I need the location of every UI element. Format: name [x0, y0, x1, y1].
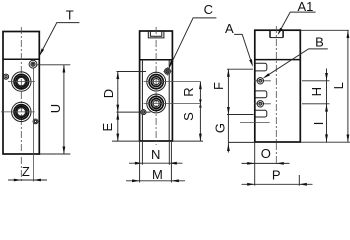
screw C: [165, 68, 171, 74]
svg-text:F: F: [211, 82, 226, 90]
svg-text:N: N: [151, 147, 160, 162]
dimension P line: [242, 183, 313, 185]
dimension O line: [242, 162, 290, 164]
extension line from screw S1: [38, 64, 71, 66]
screw S2 view1: [33, 119, 38, 124]
svg-text:M: M: [152, 167, 163, 182]
port 2 view1: [12, 102, 31, 121]
screw B2 centerline: [254, 103, 271, 105]
dimension U line: [63, 65, 65, 154]
svg-text:Z: Z: [22, 164, 30, 179]
L bottom arrow: [347, 135, 350, 143]
port 1 view2: [147, 72, 166, 91]
svg-text:P: P: [272, 168, 281, 183]
division line view1: [3, 58, 39, 60]
leader T arrowhead: [39, 49, 44, 56]
I top arrow: [325, 104, 328, 112]
dimension H line: [326, 69, 328, 104]
svg-text:C: C: [204, 2, 213, 17]
svg-text:E: E: [100, 123, 115, 132]
R top arrow: [199, 82, 202, 90]
D top arrow: [116, 72, 119, 80]
svg-text:H: H: [309, 87, 324, 96]
O right arrow: [276, 162, 284, 165]
centerline view3: [275, 26, 277, 165]
port boss 1 view3: [255, 63, 267, 71]
H top outside arrow: [325, 73, 328, 81]
dimension D line: [117, 72, 119, 113]
left screw centerline / D-E shared extension: [117, 111, 151, 113]
bottom extension line view2 right: [172, 140, 203, 142]
top notch outer view2: [148, 31, 164, 38]
dimension N extension right: [168, 142, 170, 165]
dimension L line: [347, 30, 349, 142]
dimension R line: [199, 82, 201, 104]
N right arrow: [169, 162, 177, 165]
division line view3: [255, 59, 300, 61]
P right arrow: [299, 183, 307, 186]
body outline view1: [3, 32, 39, 155]
L top arrow: [347, 31, 350, 39]
screw B1 centerline: [254, 80, 271, 82]
G bottom arrow: [227, 144, 230, 152]
U top arrow: [63, 65, 66, 73]
leader B arrowhead: [263, 73, 270, 78]
leader A1: [279, 12, 316, 33]
svg-text:O: O: [261, 146, 271, 161]
U bottom arrow: [63, 147, 66, 155]
dimension N extension left: [141, 142, 143, 165]
dimension M line: [126, 180, 185, 182]
body outline view2: [140, 31, 173, 141]
dimension F top extension: [227, 68, 253, 70]
R-S meeting arrows: [199, 100, 202, 108]
leader C arrowhead: [169, 60, 174, 67]
dimension O left extension: [254, 143, 256, 186]
body outline view3: [255, 30, 300, 142]
feature line view3: [240, 122, 270, 124]
M left arrow: [132, 179, 140, 182]
dimension I line: [326, 104, 328, 142]
port 1 centerline: [8, 81, 35, 83]
screw C extension line: [117, 71, 147, 73]
top notch inner view2: [150, 31, 161, 36]
top extension for L: [300, 29, 349, 31]
leader B: [265, 49, 328, 77]
F bottom arrow: [227, 107, 230, 115]
dimension P right extension: [298, 175, 300, 186]
svg-text:A: A: [225, 21, 234, 36]
screw B1 extension right: [302, 80, 330, 82]
screw column line view1: [32, 60, 34, 182]
svg-text:D: D: [101, 89, 116, 98]
dimension N line: [129, 162, 183, 164]
F top arrow: [227, 69, 230, 77]
port boss 3 view3: [255, 110, 267, 117]
Z right arrow: [33, 179, 41, 182]
svg-text:G: G: [213, 123, 228, 133]
G bottom extension: [228, 141, 254, 143]
screw S1 view1: [29, 60, 37, 68]
dimension F-G shared extension: [227, 114, 254, 116]
D bottom arrow: [116, 105, 119, 113]
port 2 centerline: [1, 111, 35, 113]
vertical centerline view1: [20, 27, 22, 182]
screw B2 view3: [257, 101, 263, 107]
svg-text:T: T: [66, 8, 74, 23]
inner wall left view2: [141, 60, 143, 141]
leader C: [169, 18, 216, 68]
leader A1 arrowhead: [278, 28, 283, 35]
screw B2 extension right: [302, 103, 330, 105]
O left arrow: [247, 162, 255, 165]
screw B1 view3: [257, 78, 263, 84]
I bottom arrow: [325, 134, 328, 142]
dimension G line: [227, 115, 229, 153]
E top arrow: [116, 112, 119, 120]
leader A: [234, 34, 252, 64]
centerline view2: [155, 27, 157, 145]
bottom extension line view2 left: [112, 140, 140, 142]
left small screw view1: [3, 74, 8, 79]
division line view2: [140, 59, 173, 61]
svg-text:L: L: [331, 82, 346, 89]
svg-text:R: R: [181, 87, 196, 96]
dimension M extension left: [139, 142, 141, 183]
port 2 view2: [147, 94, 166, 113]
S bottom arrow: [199, 134, 202, 142]
Z left arrow: [14, 179, 22, 182]
svg-text:B: B: [315, 34, 324, 49]
svg-text:S: S: [181, 112, 196, 121]
inner wall right view2: [168, 60, 170, 141]
P left arrow: [247, 183, 255, 186]
bottom extension right view3: [300, 141, 350, 143]
dimension F line: [227, 69, 229, 114]
E bottom arrow: [116, 134, 119, 142]
port 2 centerline / R-S shared extension: [144, 103, 201, 105]
U bottom extension: [40, 153, 70, 155]
port boss 2 view3: [255, 91, 267, 98]
top notch view3: [269, 30, 271, 37]
port 1 view1: [12, 72, 31, 91]
left screw view2: [141, 110, 146, 115]
M right arrow: [171, 179, 179, 182]
dimension E line: [117, 112, 119, 141]
svg-text:U: U: [48, 104, 63, 113]
dimension M extension right: [170, 142, 172, 183]
leader A arrowhead: [249, 59, 253, 67]
N left arrow: [135, 162, 143, 165]
svg-text:I: I: [311, 122, 326, 126]
dimension Z line: [8, 179, 47, 181]
port 1 centerline / R top extension: [144, 81, 201, 83]
leader T: [40, 23, 80, 55]
dimension S line: [199, 104, 201, 142]
